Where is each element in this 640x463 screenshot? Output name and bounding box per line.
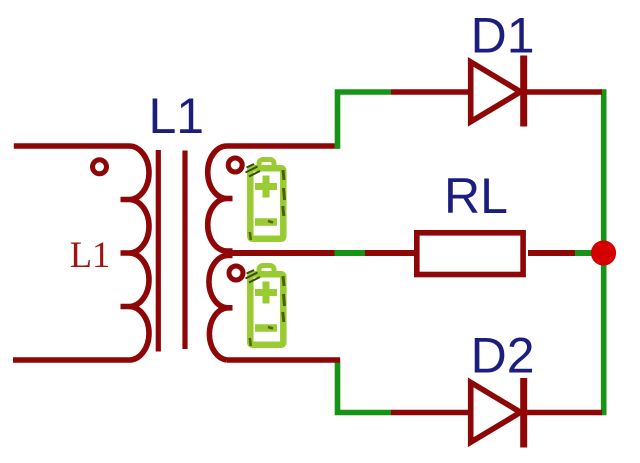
svg-text:L1: L1 xyxy=(149,88,205,144)
svg-text:RL: RL xyxy=(444,168,508,224)
svg-text:D1: D1 xyxy=(471,8,535,64)
svg-text:D2: D2 xyxy=(471,328,535,384)
svg-text:L1: L1 xyxy=(70,234,111,275)
